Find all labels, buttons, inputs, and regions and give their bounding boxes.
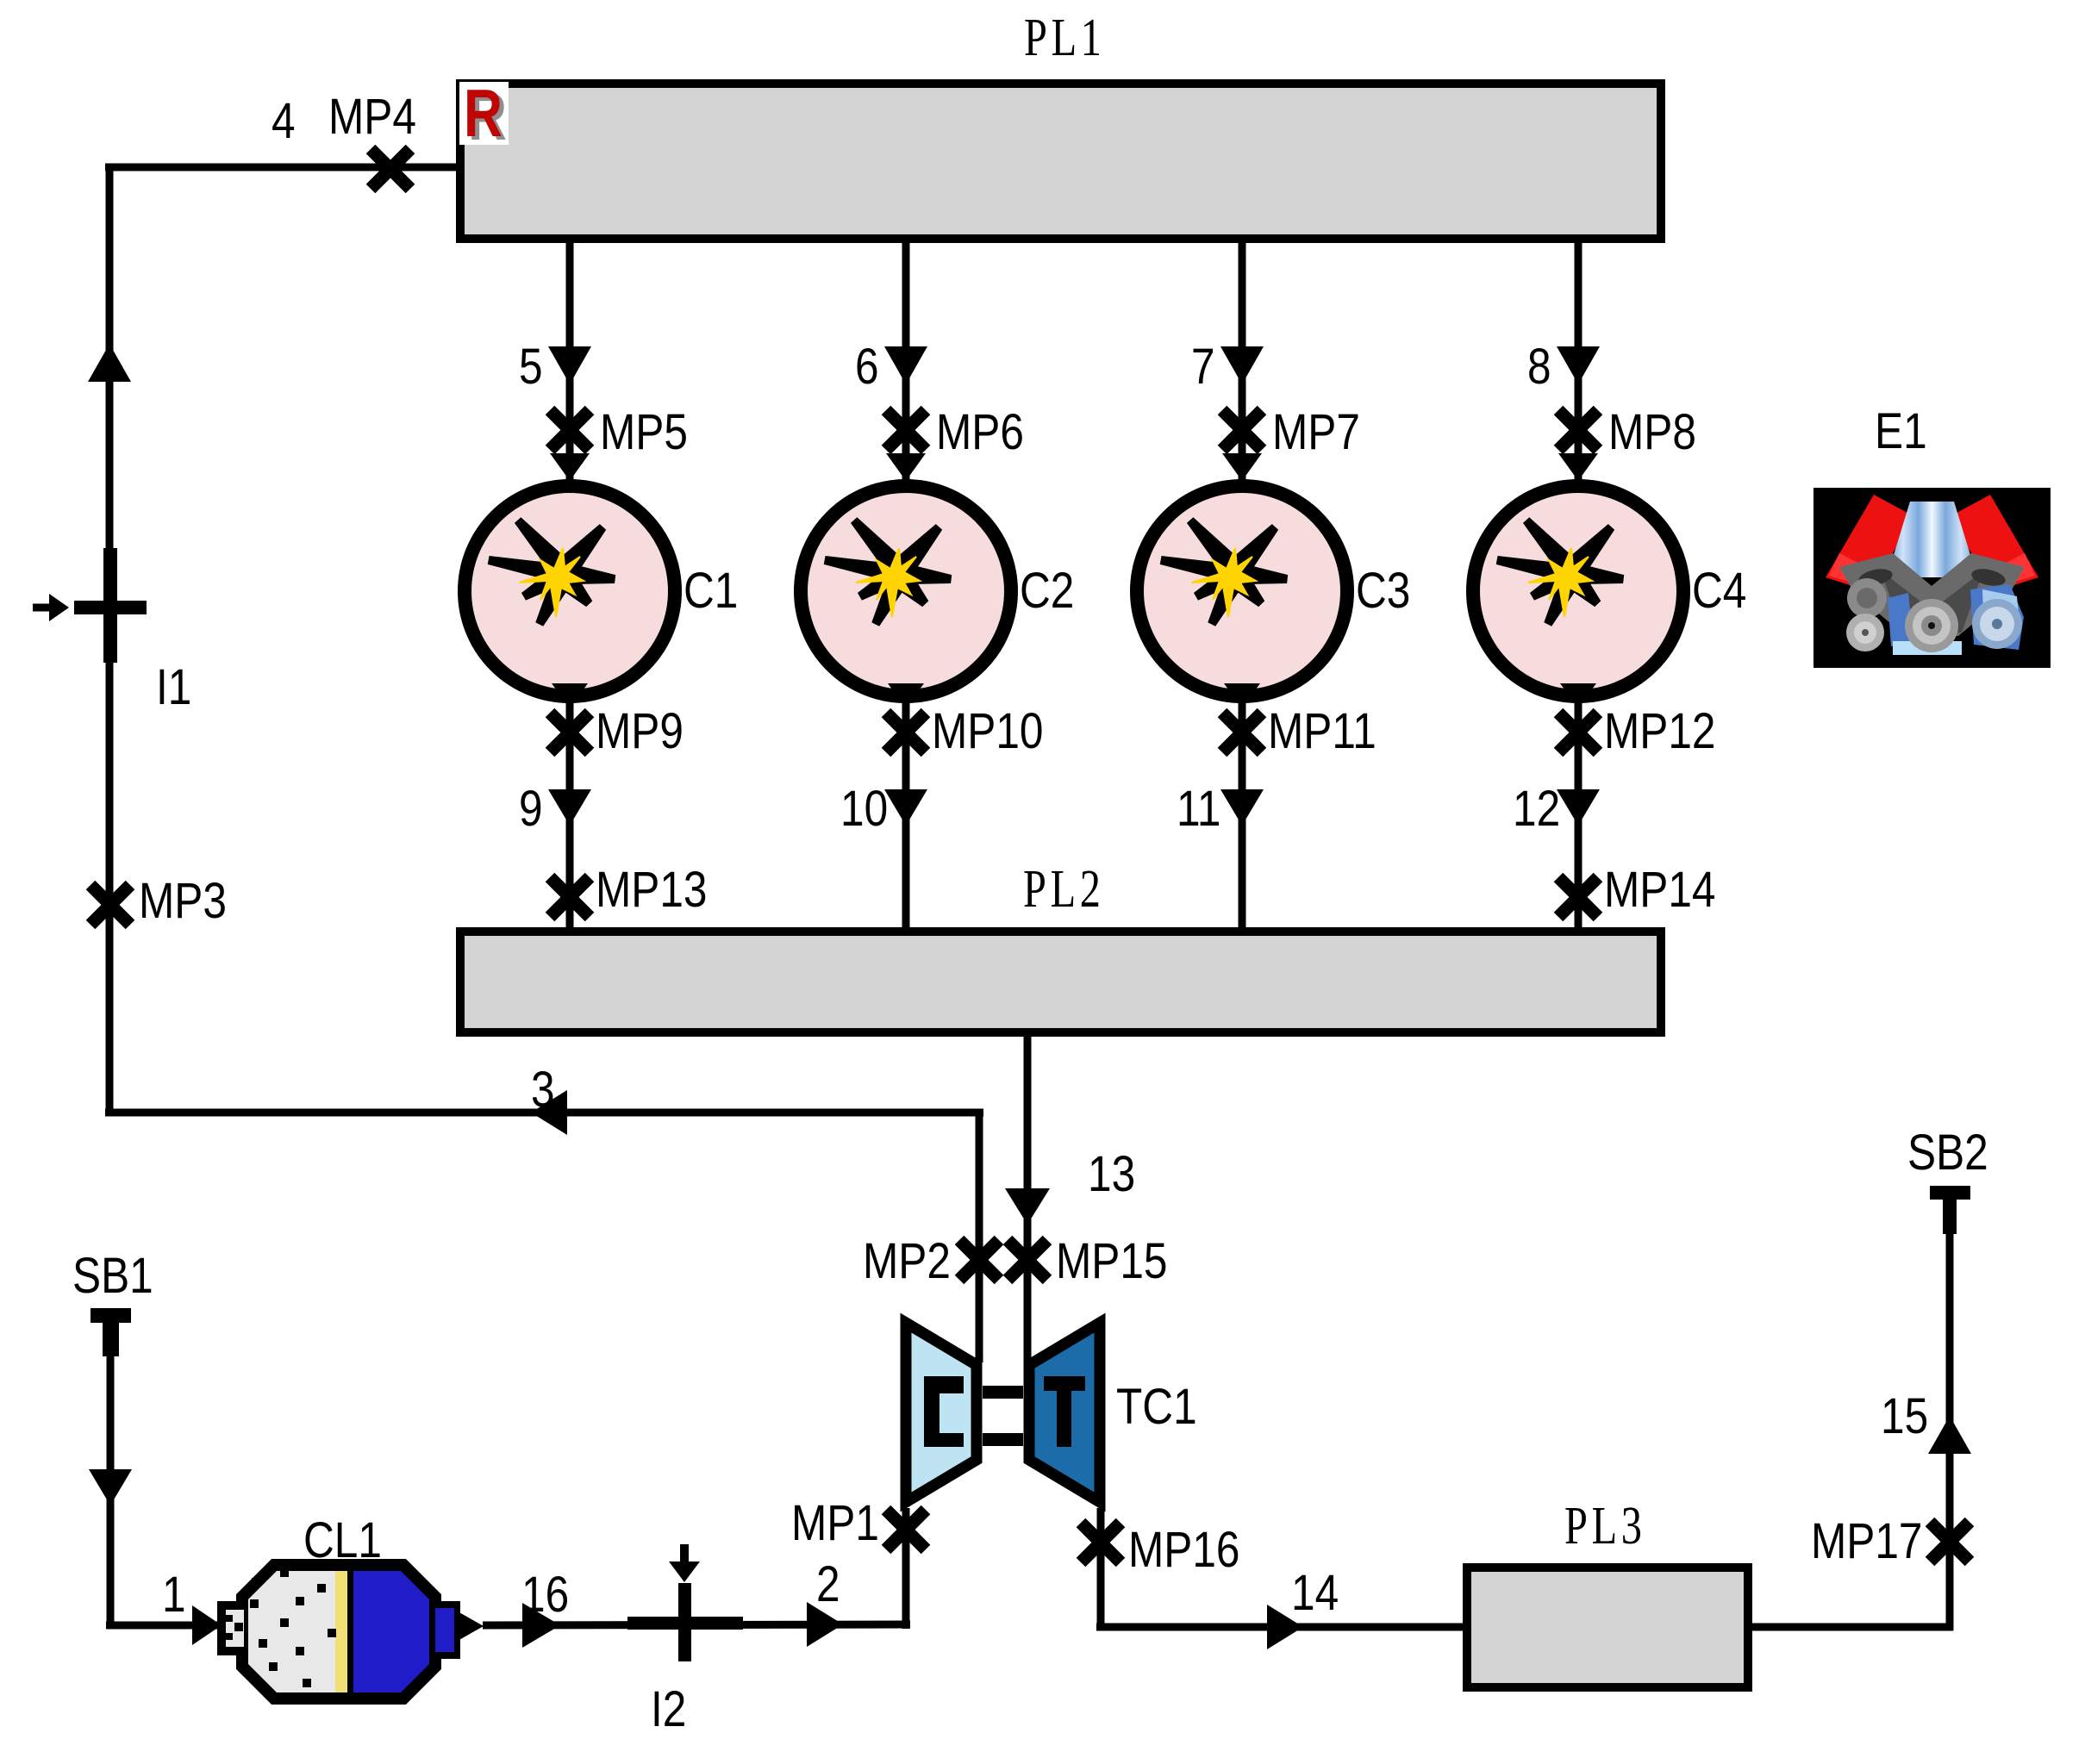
arrow link 11 down [1220,789,1264,826]
port arrow into C2 [886,453,926,481]
svg-text:C1: C1 [684,563,738,618]
wire link 1 horizontal [106,1622,219,1630]
valve MP2 [959,1240,999,1280]
svg-text:14: 14 [1291,1565,1339,1620]
injector I1 [33,548,147,663]
svg-text:SB1: SB1 [72,1248,153,1303]
svg-text:6: 6 [855,339,879,394]
svg-text:10: 10 [840,781,888,836]
wire link 3 horizontal [105,1109,983,1117]
port arrow out of C3 [1224,683,1260,708]
svg-text:4: 4 [272,93,296,148]
R icon on PL1 [459,75,509,153]
valve MP12 [1558,713,1598,752]
svg-text:PL2: PL2 [1023,859,1105,919]
wire link 2 corner [902,1621,910,1629]
wire link 11 (C3 to PL2) [1239,701,1246,932]
svg-text:MP8: MP8 [1608,404,1696,459]
svg-text:PL3: PL3 [1564,1496,1646,1555]
cylinder C3 [1137,486,1347,696]
wire link 8 (PL1 to C4) [1575,239,1582,481]
valve MP16 [1081,1523,1121,1562]
valve MP13 [550,877,590,917]
wire link 12 (C4 to PL2) [1575,701,1582,932]
wire compressor inlet (link 2 riser) [902,1508,910,1629]
svg-text:MP11: MP11 [1268,703,1376,758]
svg-text:I1: I1 [156,659,191,714]
arrow link 1 down [89,1469,132,1505]
port arrow out of C1 [552,683,588,708]
wire link 7 (PL1 to C3) [1239,239,1246,481]
arrow link 2 right [807,1602,843,1647]
svg-text:R: R [464,75,503,150]
svg-text:8: 8 [1527,339,1551,394]
svg-text:16: 16 [521,1567,569,1622]
injector I2 [627,1544,743,1661]
wire link 1 vertical [107,1353,115,1629]
wire link 15 vertical [1946,1234,1954,1630]
arrow link 6 down [884,346,927,384]
port arrow into C4 [1558,453,1598,481]
svg-text:12: 12 [1513,781,1560,836]
arrow link 10 down [884,789,927,826]
svg-text:MP5: MP5 [600,404,688,459]
pipe PL1 [460,84,1661,239]
valve MP8 [1558,410,1598,450]
valve MP6 [886,410,926,450]
arrow link 3 left [531,1090,567,1135]
wire link 6 (PL1 to C2) [902,239,910,481]
arrow link 9 down [548,789,591,826]
boundary SB1 [91,1308,131,1356]
compressor C of TC1 [906,1323,977,1502]
cylinder C2 [801,486,1011,696]
svg-text:1: 1 [162,1567,186,1622]
svg-text:MP1: MP1 [791,1495,879,1550]
wire turbine outlet (link 14 riser) [1097,1508,1105,1630]
port arrow into C1 [550,453,590,481]
svg-text:7: 7 [1191,339,1215,394]
wire left vertical (link 4/3 riser) [106,164,114,1113]
arrow link 15 up [1928,1416,1971,1454]
arrow link 5 down [548,346,591,384]
wire link 16 [483,1624,910,1625]
svg-text:MP12: MP12 [1604,703,1715,758]
wire link 13 (PL2 to turbine) [1024,1037,1032,1362]
air cleaner CL1 [217,1560,484,1704]
svg-text:MP13: MP13 [596,862,707,917]
valve MP3 [91,885,130,925]
svg-text:3: 3 [531,1062,555,1117]
valve MP7 [1222,410,1262,450]
svg-text:MP14: MP14 [1604,862,1715,917]
wire link 5 (PL1 to C1) [566,239,574,481]
svg-text:C3: C3 [1356,563,1410,618]
svg-text:9: 9 [519,781,543,836]
engine E1 icon [1813,488,2051,668]
svg-text:MP10: MP10 [932,703,1043,758]
svg-text:2: 2 [816,1556,840,1611]
svg-text:5: 5 [519,339,543,394]
valve MP5 [550,410,590,450]
arrow link 14 right [1267,1605,1303,1649]
valve MP15 [1008,1240,1047,1280]
valve MP17 [1930,1522,1970,1561]
svg-text:MP15: MP15 [1056,1233,1167,1288]
svg-text:11: 11 [1177,781,1220,836]
svg-text:MP2: MP2 [863,1233,951,1288]
arrow link 8 down [1557,346,1600,384]
svg-text:MP6: MP6 [936,404,1024,459]
arrow link 13 down [1005,1188,1050,1225]
wire link 9 (C1 to PL2) [566,701,574,932]
valve MP11 [1222,713,1262,752]
wire link 15 horizontal [1750,1624,1953,1631]
svg-text:MP16: MP16 [1128,1522,1239,1577]
valve MP14 [1558,877,1598,917]
port arrow out of C4 [1560,683,1596,708]
arrow link 1 right [192,1605,222,1645]
wire link 4 horizontal [105,164,462,171]
port arrow out of C2 [888,683,924,708]
valve MP4 [371,149,410,189]
svg-text:MP7: MP7 [1272,404,1360,459]
cylinder C1 [465,486,675,696]
pipe PL3 [1467,1568,1748,1687]
cylinder C4 [1473,486,1683,696]
svg-text:C4: C4 [1692,563,1746,618]
shaft of TC1 [983,1386,1023,1446]
svg-text:SB2: SB2 [1907,1125,1988,1180]
wire compressor outlet riser (to link 3) [976,1109,983,1362]
svg-text:MP17: MP17 [1811,1513,1922,1568]
valve MP10 [886,713,926,752]
arrow link 12 down [1557,789,1600,826]
valve MP9 [550,713,590,752]
svg-text:TC1: TC1 [1116,1379,1197,1434]
pipe PL2 [460,932,1661,1032]
svg-text:E1: E1 [1875,403,1927,458]
valve MP1 [886,1510,926,1549]
boundary SB2 [1930,1186,1970,1234]
port arrow into C3 [1222,453,1262,481]
svg-text:15: 15 [1881,1388,1928,1443]
arrow link 4 up [88,344,131,382]
svg-text:13: 13 [1088,1146,1135,1201]
arrow link 7 down [1220,346,1264,384]
svg-text:MP3: MP3 [139,873,227,928]
svg-text:I2: I2 [651,1681,686,1736]
svg-text:MP9: MP9 [596,703,684,758]
svg-text:PL1: PL1 [1024,8,1106,67]
wire link 14 [1096,1624,1465,1631]
turbine T of TC1 [1029,1323,1100,1502]
svg-text:MP4: MP4 [328,89,416,144]
svg-text:C2: C2 [1020,563,1074,618]
wire link 10 (C2 to PL2) [902,701,910,932]
arrow link 16 right [522,1603,560,1648]
